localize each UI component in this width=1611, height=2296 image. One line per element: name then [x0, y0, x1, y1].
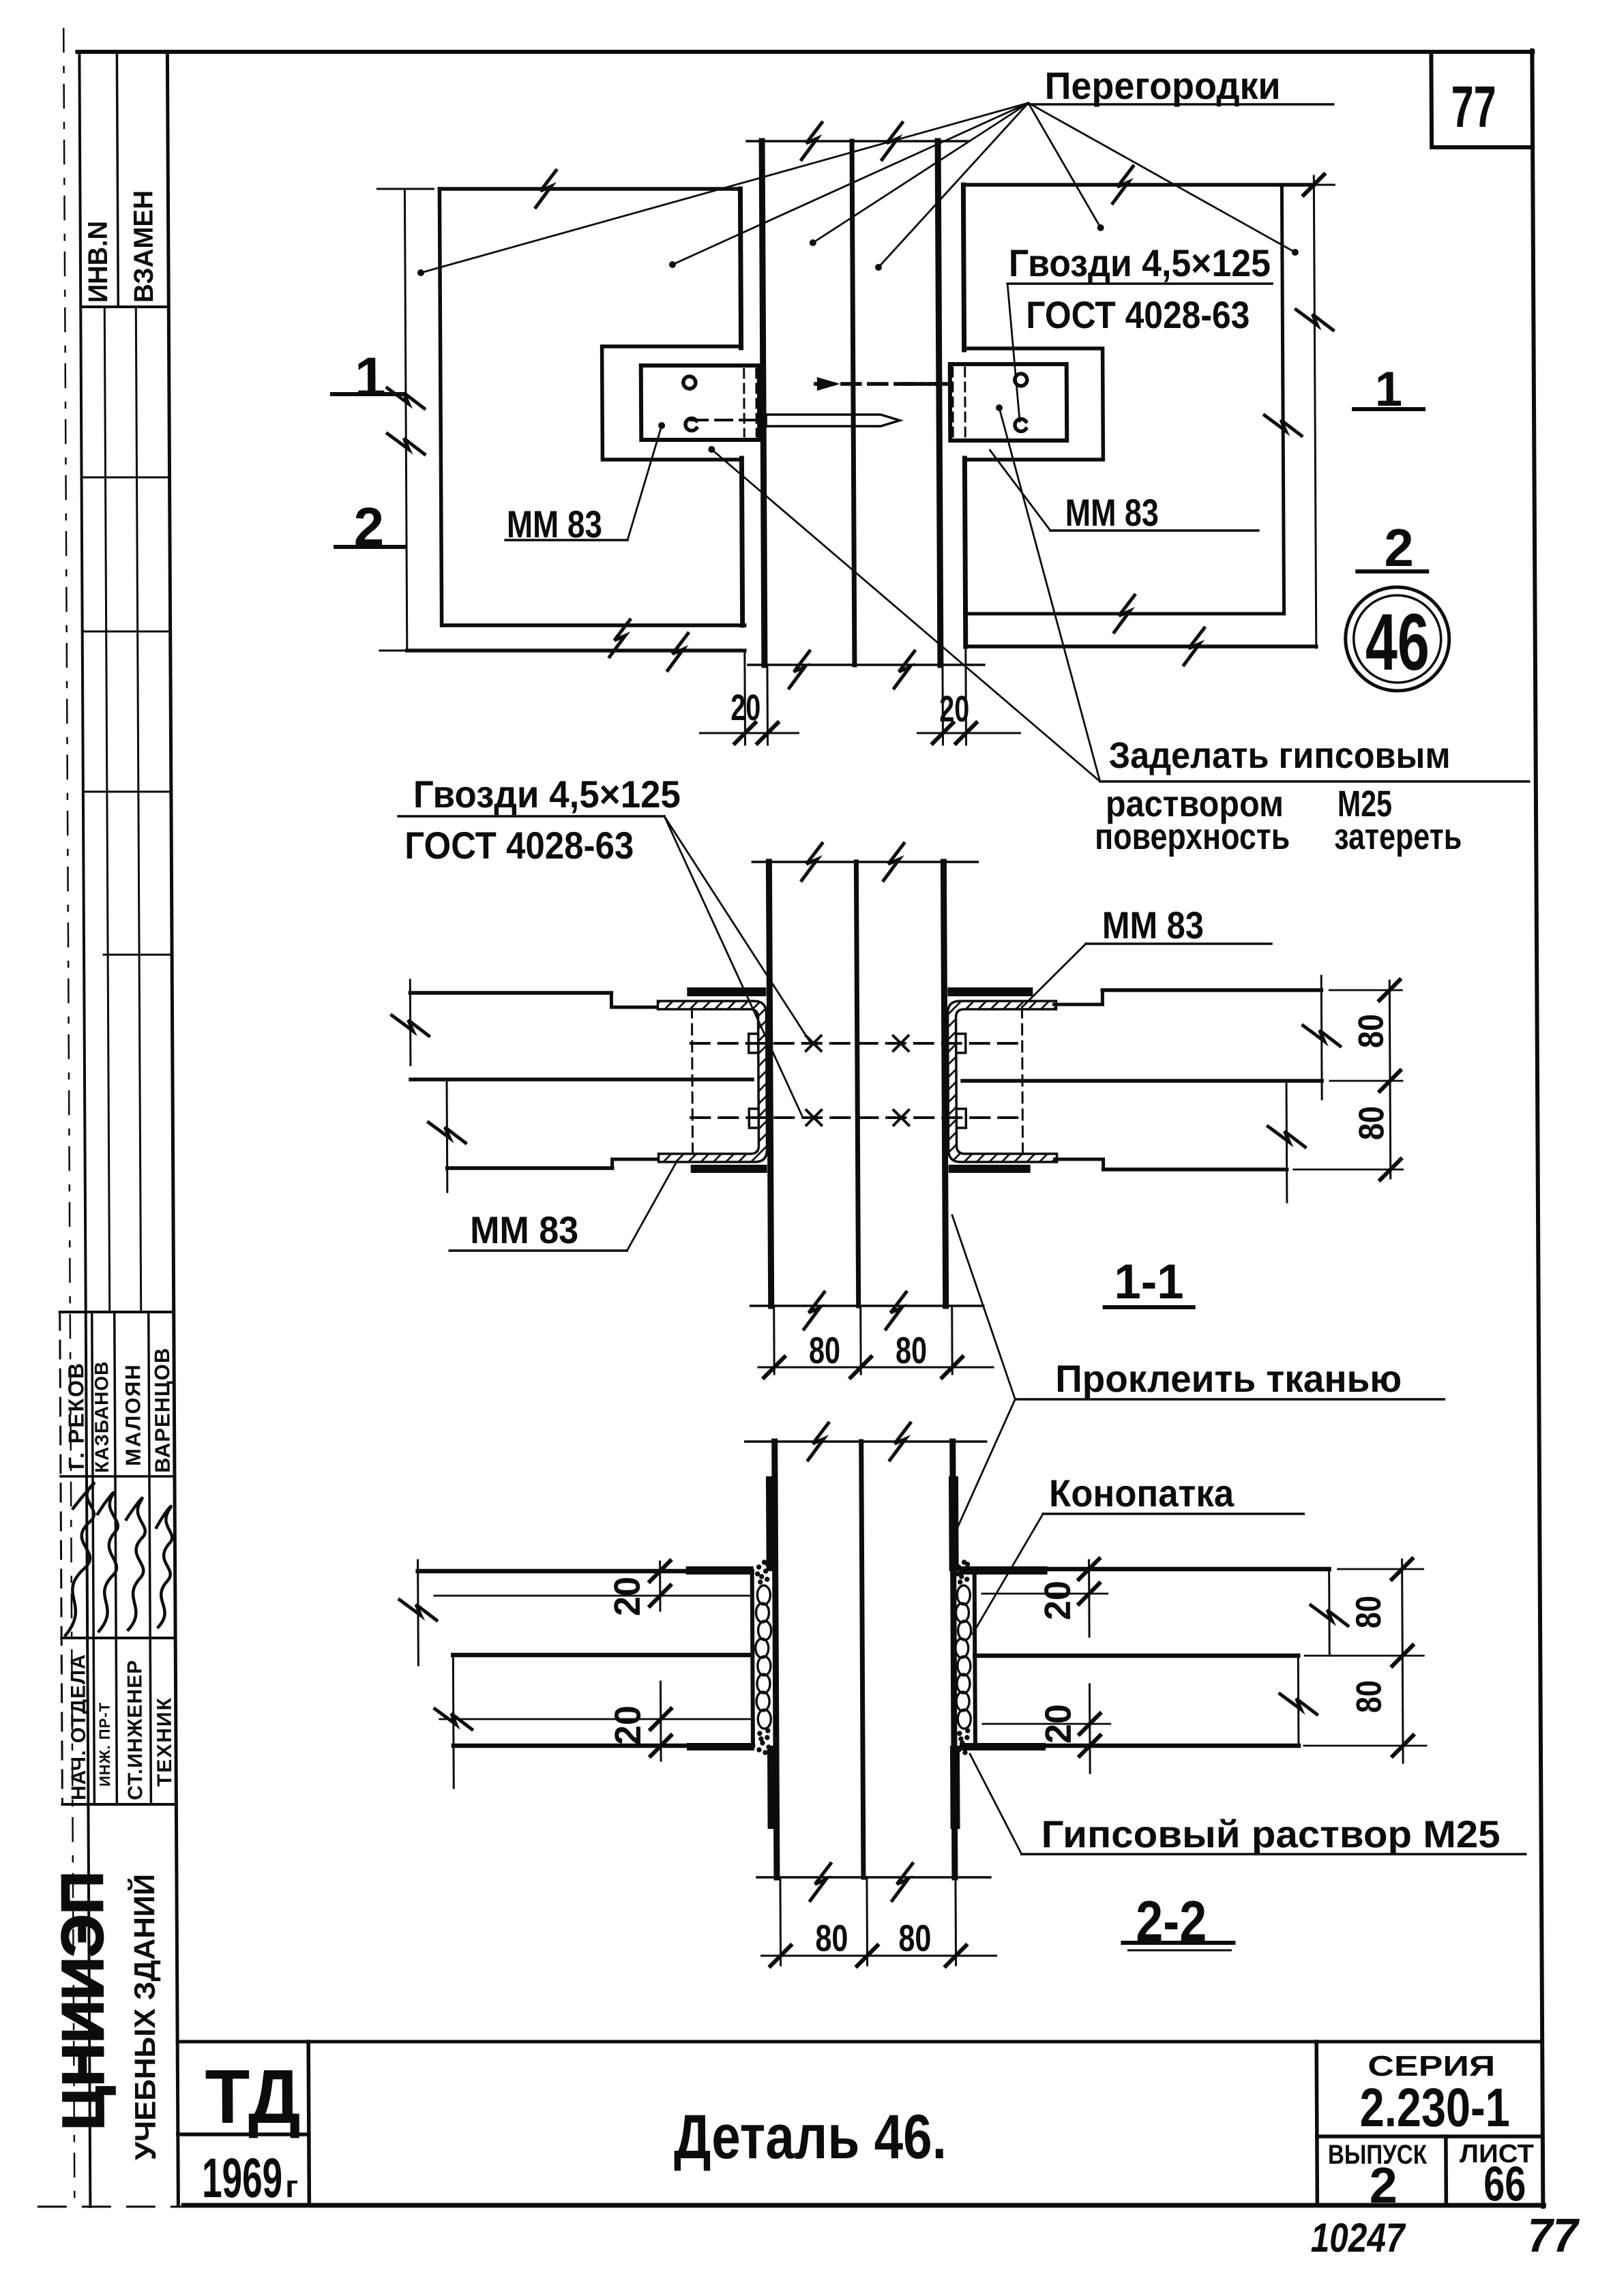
svg-text:СТ.ИНЖЕНЕР: СТ.ИНЖЕНЕР: [123, 1660, 147, 1800]
svg-text:2-2: 2-2: [1136, 1889, 1207, 1953]
1-1 underline: [1105, 1305, 1194, 1309]
svg-text:20: 20: [730, 687, 760, 728]
svg-text:Конопатка: Конопатка: [1049, 1472, 1235, 1515]
right partition 2-2: [975, 1567, 1329, 1572]
svg-text:ЦНИИЭП: ЦНИИЭП: [50, 1871, 117, 2130]
svg-text:10247: 10247: [1310, 2215, 1406, 2261]
svg-text:20: 20: [939, 689, 969, 730]
zadela leaders: [711, 449, 1099, 781]
glue black bands 1-1: [687, 987, 766, 996]
svg-text:Деталь 46.: Деталь 46.: [674, 2102, 947, 2172]
svg-text:Заделать гипсовым: Заделать гипсовым: [1108, 735, 1450, 776]
nails dashed 1-1: [691, 1042, 1025, 1045]
left bracket plate MM83: [641, 366, 760, 440]
glue black bands 2-2: [766, 1476, 776, 1571]
page number box: [1431, 52, 1533, 147]
svg-text:80: 80: [1349, 1596, 1389, 1628]
right bracket recess: [964, 348, 1104, 460]
svg-text:20: 20: [1037, 1581, 1078, 1620]
bottom 80|80: [779, 1877, 782, 1965]
svg-text:80: 80: [809, 1329, 840, 1371]
svg-text:Гипсовый раствор М25: Гипсовый раствор М25: [1041, 1813, 1500, 1855]
right partition panel: [963, 183, 1314, 187]
svg-text:Гвозди 4,5×125: Гвозди 4,5×125: [1009, 241, 1271, 284]
svg-text:МАЛОЯН: МАЛОЯН: [121, 1363, 145, 1466]
wall (plan): [747, 140, 969, 143]
20 dims bottom of plan: [743, 651, 746, 745]
S22: [398, 1215, 1526, 1966]
svg-text:2: 2: [1369, 2157, 1398, 2213]
nails (plan, dashed): [816, 382, 949, 386]
svg-text:2: 2: [353, 496, 384, 557]
signature block: [60, 1312, 63, 1804]
svg-text:46: 46: [1365, 597, 1430, 687]
left upper slab: [410, 991, 611, 995]
circled 46: [1345, 587, 1449, 691]
left channel MM83 (hatched): [657, 1001, 767, 1162]
TITLEBLOCK: [177, 2042, 1543, 2205]
svg-text:затереть: затереть: [1334, 816, 1462, 857]
svg-text:ММ 83: ММ 83: [507, 503, 602, 546]
svg-text:ММ 83: ММ 83: [1102, 904, 1204, 946]
S11: [391, 816, 1404, 1377]
left 20 dims: [659, 1562, 661, 1611]
PLAN: [331, 103, 1529, 781]
right channel MM83 (hatched): [947, 1001, 1056, 1162]
svg-text:ММ 83: ММ 83: [470, 1208, 578, 1251]
left bracket recess: [602, 346, 742, 460]
gvozdi leader (right): [1007, 284, 1020, 421]
labels/leaders: [449, 1249, 627, 1252]
right 80/80 dims: [1338, 1568, 1423, 1570]
svg-text:80: 80: [1349, 1680, 1389, 1713]
svg-text:ГОСТ 4028-63: ГОСТ 4028-63: [1026, 293, 1250, 336]
svg-text:1969: 1969: [202, 2147, 282, 2209]
svg-text:ММ 83: ММ 83: [1065, 491, 1159, 534]
svg-text:ВЗАМЕН: ВЗАМЕН: [128, 190, 159, 303]
svg-text:НАЧ. ОТДЕЛА: НАЧ. ОТДЕЛА: [67, 1654, 90, 1800]
middle rows: [104, 307, 109, 1312]
right 20 dims: [1088, 1560, 1091, 1637]
svg-text:ИНЖ. ПР-Т: ИНЖ. ПР-Т: [96, 1702, 114, 1787]
labels / leaders: [1015, 1398, 1444, 1401]
section mark lines: [332, 392, 403, 396]
svg-text:ТД: ТД: [205, 2054, 301, 2139]
svg-text:УЧЕБНЫХ ЗДАНИЙ: УЧЕБНЫХ ЗДАНИЙ: [128, 1874, 162, 2160]
svg-text:КАЗБАНОВ: КАЗБАНОВ: [91, 1361, 113, 1473]
right lower slab: [1104, 1167, 1287, 1172]
right upper slab: [1102, 988, 1321, 992]
svg-text:1-1: 1-1: [1114, 1255, 1183, 1309]
left dim line vertical: [404, 189, 407, 651]
svg-text:80: 80: [1352, 1014, 1391, 1048]
80|80 between sections: [773, 1306, 775, 1374]
svg-text:2: 2: [1384, 518, 1414, 578]
left lower slab: [447, 1166, 612, 1170]
svg-text:80: 80: [896, 1329, 927, 1371]
nail head plates left: [749, 1034, 758, 1053]
right dim line: [1314, 176, 1316, 648]
svg-text:г: г: [285, 2168, 298, 2204]
svg-text:Перегородки: Перегородки: [1044, 64, 1280, 107]
left partition 2-2: [418, 1569, 752, 1574]
border frame: [77, 50, 1533, 54]
svg-text:80: 80: [898, 1917, 931, 1959]
svg-text:20: 20: [608, 1705, 649, 1745]
svg-text:20: 20: [607, 1577, 648, 1616]
svg-text:ВАРЕНЦОВ: ВАРЕНЦОВ: [150, 1347, 175, 1473]
peregorodki leader fan: [420, 103, 1295, 273]
inv/vzamen block: [117, 52, 118, 307]
signatures (squiggles): [65, 1483, 173, 1635]
svg-text:77: 77: [1527, 2209, 1580, 2262]
svg-text:Гвозди 4,5×125: Гвозди 4,5×125: [413, 773, 681, 816]
svg-text:Г. РЕКОВ: Г. РЕКОВ: [63, 1362, 89, 1470]
svg-text:ГОСТ 4028-63: ГОСТ 4028-63: [404, 824, 634, 867]
svg-text:66: 66: [1483, 2157, 1526, 2211]
right 80/80 dims: [1329, 989, 1402, 992]
svg-text:поверхность: поверхность: [1095, 816, 1290, 857]
wall vertical (section 1-1): [752, 861, 977, 863]
svg-text:80: 80: [1352, 1106, 1391, 1140]
left partition panel: [439, 187, 740, 191]
svg-text:1: 1: [1375, 362, 1402, 417]
right bracket plate MM83: [950, 364, 1067, 441]
svg-text:20: 20: [1038, 1704, 1079, 1744]
SIDEBAR: [53, 52, 176, 1804]
svg-text:ТЕХНИК: ТЕХНИК: [153, 1697, 177, 1787]
caulk strips: [755, 1560, 771, 1755]
svg-text:80: 80: [815, 1917, 848, 1959]
svg-text:1: 1: [355, 346, 386, 408]
svg-text:ИНВ.N: ИНВ.N: [83, 221, 114, 303]
svg-text:Проклеить тканью: Проклеить тканью: [1055, 1357, 1402, 1400]
2-2 underline: [1123, 1941, 1233, 1945]
svg-text:2.230-1: 2.230-1: [1359, 2077, 1509, 2138]
wall vertical (section 2-2): [745, 1440, 986, 1443]
svg-text:77: 77: [1451, 74, 1496, 140]
MM83 labels + leaders: [505, 539, 627, 541]
